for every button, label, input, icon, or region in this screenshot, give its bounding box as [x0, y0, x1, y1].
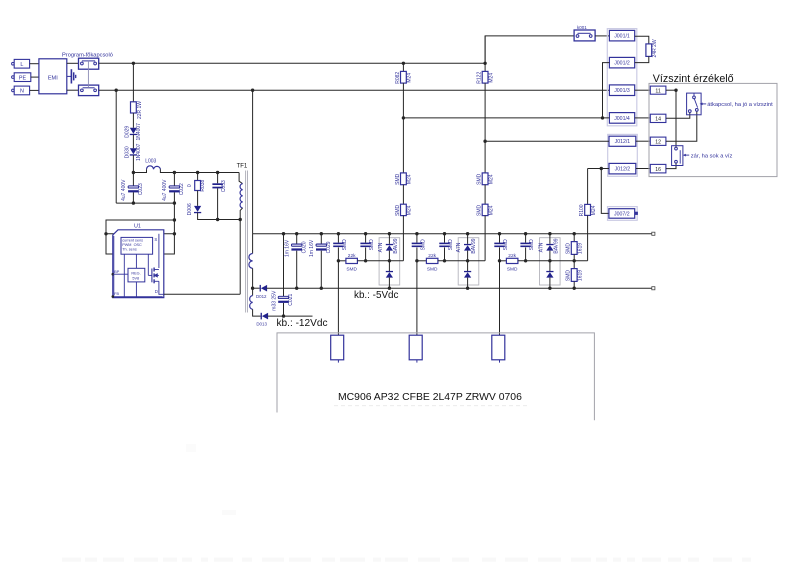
switch level-A box: [687, 93, 702, 115]
wire node to R1619b: [573, 261, 575, 269]
connector group J012 outline: [608, 134, 638, 176]
svg-text:SMD: SMD: [507, 267, 518, 273]
svg-text:J007/2: J007/2: [614, 211, 630, 217]
junction sense node ch1: [337, 259, 340, 262]
svg-text:SMD: SMD: [395, 173, 401, 185]
junction 0V rail x=467.6: [466, 232, 469, 235]
junction -5V rail x=389.4: [388, 287, 391, 290]
junction bus/C053: [216, 171, 219, 174]
wire PE to EMI: [31, 76, 39, 78]
capacitor C022: [169, 186, 180, 193]
BAV99 outline box channel 3: [540, 238, 561, 285]
wire bus to R038: [197, 173, 199, 181]
wire C-filter2 to node ch1: [365, 247, 367, 260]
wire bus to TF1 primary: [239, 173, 243, 184]
wire EMI to switch bottom: [67, 89, 79, 91]
wire J001/3 right to terminal 11: [635, 89, 651, 91]
wire sense line ch3 (cap to node to connector): [499, 247, 501, 335]
svg-text:M24: M24: [407, 174, 413, 184]
wire U1 frame top: [164, 203, 175, 254]
wire C022 top lead: [173, 173, 175, 186]
svg-text:M24: M24: [591, 205, 597, 215]
U1 wire REG down: [135, 282, 137, 298]
wire BAV99 mid ch2: [467, 251, 469, 271]
junction 0V rail x=365.6: [364, 232, 367, 235]
wire terminal 12 to switch A: [666, 111, 697, 141]
wire R082 down to M24a ch1: [402, 83, 404, 173]
svg-text:SMD: SMD: [566, 270, 572, 282]
svg-text:M24: M24: [488, 205, 494, 215]
resistor SMD M24 b ch1: [401, 204, 407, 215]
wire 0V to C-filter1 ch3: [499, 234, 501, 243]
transformer TF1 secondary winding 1: [249, 254, 253, 269]
terminal 14: [650, 114, 666, 122]
wire C021 to -12V: [283, 303, 285, 316]
svg-text:FB: FB: [114, 292, 119, 296]
resistor R038: [195, 181, 201, 191]
junction node/BAV99 ch2: [466, 259, 469, 262]
wire terminal 16 to switch B: [666, 163, 676, 169]
wire TF1 primary to drain node: [240, 208, 242, 294]
svg-text:11: 11: [655, 88, 660, 94]
wire 22k to clamp node ch2: [438, 260, 485, 262]
svg-text:BAV99: BAV99: [471, 238, 477, 253]
wire 0V to C-filter1 ch2: [416, 234, 418, 243]
k001 contact right: [589, 35, 592, 38]
junction 0V rail x=338.4: [337, 232, 340, 235]
switch B top contact: [675, 147, 678, 150]
k001 blade: [578, 32, 591, 34]
switch S1a contact right: [94, 62, 97, 65]
wire J012/2 left net: [588, 168, 609, 170]
wire M24a-M24b ch2: [484, 185, 486, 205]
EMI filter block: [39, 59, 67, 94]
diode D013: [261, 313, 269, 320]
wire J012/2 right to terminal 16: [636, 168, 651, 170]
arrow to switch B: [683, 154, 689, 157]
svg-text:C020: C020: [301, 241, 307, 253]
junction J012/2 / J007/2: [600, 167, 603, 170]
junction neutral/secondary 0V drop: [251, 89, 254, 92]
svg-text:SMD: SMD: [369, 239, 375, 251]
transformer TF1 core: [246, 171, 248, 313]
junction -5V rail x=296.7: [295, 287, 298, 290]
svg-text:D006: D006: [187, 203, 193, 215]
junction clamp/C053: [216, 218, 219, 221]
svg-text:S: S: [154, 237, 157, 242]
svg-text:24R 2W: 24R 2W: [652, 39, 658, 57]
BAV99 outline box channel 1: [379, 238, 400, 285]
resistor 22k SMD ch2: [426, 258, 438, 263]
wire J001/4 net: [403, 117, 609, 119]
wire J012-2 to R100: [587, 169, 589, 205]
wire node row ch2: [417, 260, 427, 262]
wire bus to C053: [217, 173, 219, 184]
svg-text:BP: BP: [114, 270, 120, 274]
wire D030 to node DC+: [132, 155, 134, 172]
svg-text:R038: R038: [200, 180, 206, 192]
wire C053 bottom lead: [217, 188, 219, 219]
junction node/C-filter2 ch2: [443, 259, 446, 262]
pin 3 tail: [499, 360, 501, 363]
wire -12V output: [268, 315, 313, 317]
svg-text:4u7 400V: 4u7 400V: [121, 179, 127, 201]
wire 0V to C-filter2 ch1: [365, 234, 367, 243]
connector pin circle N: [12, 89, 15, 92]
resistor 1619 upper: [571, 242, 577, 255]
switch S1b (neutral) box: [79, 85, 99, 96]
svg-text:J001/2: J001/2: [614, 61, 630, 67]
wire node row ch3: [500, 260, 507, 262]
resistor SMD M24 a ch1: [401, 173, 407, 185]
wire DC+ to L003: [133, 169, 146, 172]
svg-text:BAV99: BAV99: [393, 238, 399, 253]
svg-text:22k: 22k: [348, 253, 356, 259]
wire C020 to -5V: [296, 251, 298, 289]
wire drain D to TF1: [164, 293, 240, 295]
junction -12V/C021: [282, 314, 285, 317]
switch A common contact: [693, 96, 696, 99]
connector terminal PE: [14, 73, 31, 82]
junction -5V rail x=467.6: [466, 287, 469, 290]
pin 1 tail: [337, 360, 339, 363]
junction C022/bus-: [173, 201, 176, 204]
IC U1 body: [113, 230, 164, 298]
svg-text:C029: C029: [326, 241, 332, 253]
junction ch1 feed / J001-4 wire: [402, 116, 405, 119]
resistor 22k SMD ch3: [506, 258, 518, 263]
junction node/C-filter2 ch3: [524, 259, 527, 262]
connector J012/1: [609, 136, 636, 146]
capacitor C021: [278, 296, 289, 303]
junction 0V rail x=549.9: [548, 232, 551, 235]
switch S1b contact left: [81, 89, 84, 92]
svg-text:R082: R082: [395, 72, 401, 84]
svg-text:D029: D029: [124, 126, 130, 138]
wire R1619a to node: [573, 254, 575, 260]
svg-text:M24: M24: [488, 73, 494, 83]
wire R-24R to J001/2: [635, 56, 649, 62]
wire -5V rail: [267, 287, 652, 289]
wire BAV99 mid ch3: [549, 251, 551, 271]
transistor Q1 (U1 MOSFET): [148, 254, 159, 283]
capacitor C053: [212, 183, 222, 188]
svg-text:4u7 400V: 4u7 400V: [162, 179, 168, 201]
wire 22R to D029: [132, 113, 134, 128]
resistor SMD M24 a ch2: [482, 173, 488, 185]
switch A NO contact: [695, 109, 698, 112]
svg-text:átkapcsol, ha jó a vízszint: átkapcsol, ha jó a vízszint: [707, 102, 773, 108]
junction 0V rail x=296.7: [295, 232, 298, 235]
svg-text:BAV99: BAV99: [553, 238, 559, 253]
switch S1a contact left: [81, 62, 84, 65]
U1 wire FB column: [123, 254, 125, 297]
svg-text:M24: M24: [407, 73, 413, 83]
svg-text:1N4007: 1N4007: [136, 143, 142, 161]
scan artifact smudge 2: [186, 444, 196, 452]
wire R038 to D006: [197, 191, 199, 206]
wire terminal 14 to switch A: [666, 113, 690, 119]
junction 0V rail x=321.3: [320, 232, 323, 235]
pin 2 tail: [416, 360, 418, 363]
svg-text:SMD: SMD: [503, 239, 509, 251]
connector J001/1: [609, 30, 634, 41]
connector J001/4: [609, 113, 634, 124]
capacitor SMD filter1 ch3: [494, 243, 504, 248]
svg-text:C022: C022: [179, 183, 185, 195]
wire R100 to node ch3: [587, 215, 589, 260]
svg-text:22k: 22k: [428, 253, 436, 259]
junction 0V rail x=574.2: [573, 232, 576, 235]
svg-text:m33 25V: m33 25V: [271, 290, 277, 311]
wire neutral rail: [99, 89, 610, 91]
svg-text:R122: R122: [477, 72, 483, 84]
wire C023 bottom lead: [132, 192, 134, 203]
capacitor SMD filter1 ch1: [333, 243, 343, 248]
connector J007/2: [609, 209, 635, 219]
capacitor C020: [291, 244, 302, 251]
svg-text:D: D: [155, 289, 158, 294]
arrow to switch A: [700, 103, 707, 106]
wire k001 to J001/1: [595, 35, 609, 37]
wire J012/1 right to terminal 12: [636, 140, 651, 142]
connector group J007 outline: [608, 207, 638, 221]
wire 0V to BAV99 ch1: [388, 234, 390, 244]
wire phase to R082: [402, 63, 404, 71]
resistor 1619 lower: [571, 269, 577, 282]
svg-text:C053: C053: [221, 180, 227, 192]
svg-text:C023: C023: [138, 183, 144, 195]
U1 wire MOSFET to D pin: [159, 281, 164, 294]
svg-text:L003: L003: [145, 159, 156, 165]
capacitor C023: [128, 186, 139, 193]
programmer unit box: [277, 333, 594, 420]
svg-text:L: L: [20, 62, 23, 68]
switch S1 mechanical link: [87, 61, 89, 88]
wire R1619b to -5V: [573, 281, 575, 288]
wire 0V to BAV99 ch3: [549, 234, 551, 244]
switch A common tail: [693, 93, 695, 96]
junction tap/D012: [251, 287, 254, 290]
svg-text:5V8: 5V8: [132, 276, 139, 280]
wire L003 to bus: [160, 169, 239, 172]
junction phase/22R: [132, 62, 135, 65]
wire J001/4 right to terminal 14: [635, 117, 651, 119]
wire 0V to C020: [296, 234, 298, 244]
svg-text:16: 16: [655, 167, 661, 173]
connector pin circle PE: [12, 76, 15, 79]
junction 0V rail x=444.5: [443, 232, 446, 235]
wire EMI to switch top: [67, 62, 79, 64]
svg-text:J012/1: J012/1: [615, 139, 631, 145]
junction 0V rail x=283.5: [282, 232, 285, 235]
junction phase/R122 corner: [483, 62, 486, 65]
wire DC- bus: [116, 202, 174, 204]
svg-text:J001/3: J001/3: [614, 88, 630, 94]
wire M24b to node ch1: [402, 216, 404, 261]
junction node/1619: [573, 259, 576, 262]
wire J001/1 to R-24R: [635, 36, 649, 44]
junction BP pin: [112, 273, 115, 276]
svg-text:M24: M24: [407, 205, 413, 215]
svg-text:D013: D013: [256, 322, 267, 327]
junction 0V rail x=525.6: [524, 232, 527, 235]
connector pin 3 to programmer: [492, 335, 505, 360]
terminal -5V rail end: [652, 287, 655, 290]
wire neutral drop left: [115, 90, 117, 203]
U1 wire S column to MOSFET: [158, 234, 160, 268]
wire k001 corner to R122: [484, 36, 486, 72]
connector pin 1 to programmer: [331, 335, 344, 360]
junction bus/R038: [196, 171, 199, 174]
svg-text:REG.: REG.: [131, 271, 140, 275]
svg-text:SMD: SMD: [529, 239, 535, 251]
svg-text:EMI: EMI: [48, 75, 58, 81]
connector pin circle L: [12, 62, 15, 65]
diode D029: [130, 128, 137, 135]
svg-text:J001/1: J001/1: [614, 34, 630, 40]
svg-text:N: N: [20, 89, 24, 95]
wire phase corner to k001: [485, 36, 574, 63]
wire C023 top lead: [132, 173, 134, 186]
svg-text:TF1: TF1: [237, 163, 248, 169]
wire common drop: [675, 90, 677, 148]
wire R122 down to M24a ch2: [484, 83, 486, 173]
capacitor SMD filter2 ch2: [439, 243, 449, 248]
wire neutral drop to 0V rail: [252, 90, 254, 233]
svg-text:M24: M24: [488, 174, 494, 184]
wire C029 to -5V: [320, 251, 322, 289]
junction neutral/left drop: [115, 89, 118, 92]
terminal 16: [650, 164, 666, 173]
programmer unit faint edge: [334, 405, 527, 407]
svg-text:C021: C021: [288, 294, 294, 306]
switch S1b blade: [83, 87, 95, 89]
junction FB pin: [112, 295, 115, 298]
resistor R122: [482, 71, 488, 83]
U1 internal function box: [121, 237, 153, 254]
resistor R100: [585, 204, 591, 215]
inductor L003: [147, 166, 161, 169]
junction J001/2 tie: [601, 116, 604, 119]
junction sense node ch3: [498, 259, 501, 262]
switch S1b contact right: [94, 89, 97, 92]
wire phase rail: [99, 62, 485, 64]
svg-text:SMD: SMD: [420, 239, 426, 251]
wire C022 bottom lead: [173, 192, 175, 203]
wire J012/1 net: [485, 140, 609, 142]
wire TF1 sec2 to D013: [253, 309, 261, 316]
switch level-B box: [672, 146, 683, 166]
capacitor SMD filter2 ch3: [520, 243, 530, 248]
wire 0V to C029: [320, 234, 322, 244]
terminal 11: [650, 86, 666, 94]
diode BAV99 lower ch1: [386, 271, 393, 278]
wire BAV99 to -5V ch1: [388, 278, 390, 289]
svg-text:SMD: SMD: [395, 204, 401, 216]
svg-text:A7N: A7N: [378, 242, 384, 252]
svg-text:J012/2: J012/2: [615, 167, 631, 173]
svg-text:MC906 AP32 CFBE 2L47P ZRWV 070: MC906 AP32 CFBE 2L47P ZRWV 0706: [338, 392, 522, 403]
junction clamp/drain: [239, 218, 242, 221]
svg-text:1N4007: 1N4007: [136, 123, 142, 141]
diode D012: [260, 285, 268, 292]
wire 0V to C-filter2 ch3: [525, 234, 527, 243]
U1 REG 5V8 box: [128, 268, 145, 282]
switch A blade: [694, 99, 697, 108]
svg-text:U1: U1: [134, 224, 141, 230]
svg-text:SMD: SMD: [566, 243, 572, 255]
relay contact k001 box: [574, 30, 595, 41]
svg-text:SMD: SMD: [477, 173, 483, 185]
wire sense line ch1 (cap to node to connector): [337, 247, 339, 335]
junction sense node ch2: [415, 259, 418, 262]
IC U1 body bevel: [114, 236, 163, 297]
svg-text:14: 14: [655, 117, 661, 123]
diode D006: [194, 206, 201, 213]
wire TF1 sec1 to tap: [252, 268, 254, 295]
capacitor SMD filter2 ch1: [360, 243, 370, 248]
svg-text:J001/4: J001/4: [614, 116, 630, 122]
svg-text:1619: 1619: [578, 270, 584, 281]
wire sense line ch2 (cap to node to connector): [416, 247, 418, 335]
wire J007/2 feed: [601, 169, 609, 214]
svg-text:PWM OSC: PWM OSC: [122, 243, 142, 247]
svg-text:1m 16V: 1m 16V: [309, 239, 315, 257]
junction node/BAV99 ch1: [388, 259, 391, 262]
pin square J007/2: [635, 212, 638, 215]
capacitor C029: [316, 244, 327, 251]
connector pin 2 to programmer: [409, 335, 422, 360]
connector terminal L: [14, 59, 29, 68]
wire phase to R-22R: [132, 63, 134, 102]
scan artifact smudge 1: [222, 510, 236, 515]
capacitor SMD filter1 ch2: [412, 243, 422, 248]
junction S row right: [173, 232, 176, 235]
connector J001/2: [609, 57, 634, 68]
diode D030: [130, 148, 137, 155]
wire BAV99 to -5V ch2: [467, 278, 469, 289]
resistor R082: [401, 71, 407, 83]
svg-text:22R 1W: 22R 1W: [137, 101, 143, 119]
wire J001/2 to J001/4 net: [603, 63, 610, 118]
junction ch2 feed / J012-1 wire: [483, 140, 486, 143]
svg-text:A7N: A7N: [456, 242, 462, 252]
k001 contact left: [576, 35, 579, 38]
wire TF1 sec1 top lead: [252, 234, 254, 254]
svg-text:D012: D012: [256, 294, 267, 299]
diode BAV99 upper ch1: [386, 244, 393, 251]
BAV99 outline box channel 2: [458, 238, 479, 285]
wire C-filter2 to node ch3: [525, 247, 527, 260]
connector group J001 outline: [607, 29, 637, 126]
wire 0V to BAV99 ch2: [467, 234, 469, 244]
junction 0V rail x=416.9: [415, 232, 418, 235]
svg-text:SMD: SMD: [342, 239, 348, 251]
junction node/C-filter2 ch1: [364, 259, 367, 262]
svg-text:zár, ha sok a víz: zár, ha sok a víz: [691, 153, 733, 159]
ground lead from EMI: [67, 75, 71, 77]
U1 wire BP to REG: [113, 273, 128, 275]
switch B blade: [679, 150, 681, 163]
resistor 22k SMD ch1: [346, 258, 358, 263]
wire 0V to C021: [283, 234, 285, 297]
junction U1 frame/C022 line: [173, 218, 176, 221]
diode BAV99 lower ch2: [464, 271, 471, 278]
wire D006 to clamp bus: [198, 213, 241, 220]
switch S1a blade: [82, 60, 95, 62]
switch S1a (line) box: [79, 58, 99, 69]
